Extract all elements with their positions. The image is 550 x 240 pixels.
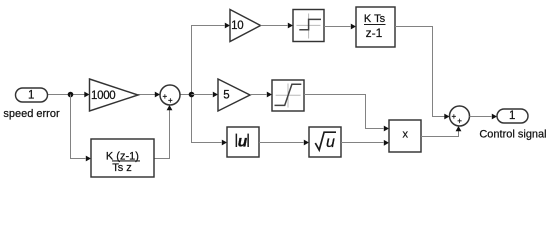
wire sum1 to branch node <box>180 94 192 96</box>
wire sqrt to product in2 <box>341 142 384 144</box>
wire product to sum2 bottom <box>421 127 459 137</box>
wire gain 1000 to sum1 <box>138 94 156 96</box>
arrow into sign block <box>288 23 293 29</box>
svg-text:1: 1 <box>509 110 515 122</box>
wire branch to gain 5 <box>192 94 213 96</box>
svg-text:1000: 1000 <box>91 90 115 102</box>
wire inport to gain 1000 <box>48 94 85 96</box>
svg-text:5: 5 <box>223 89 229 101</box>
arrow into sum1 bottom <box>167 105 173 110</box>
wire gain5 to saturation <box>250 94 267 96</box>
svg-text:z-1: z-1 <box>366 26 383 40</box>
wire sum2 to outport <box>470 116 492 118</box>
arrow into sum2 left <box>444 114 449 120</box>
svg-text:Ts z: Ts z <box>112 162 132 174</box>
svg-text:Control signal: Control signal <box>479 129 546 141</box>
arrow into abs block <box>222 140 227 146</box>
svg-text:K Ts: K Ts <box>364 13 386 25</box>
label speed error <box>3 108 60 120</box>
arrow into integrator <box>351 24 356 30</box>
svg-text:+: + <box>457 117 462 126</box>
arrow into sum2 bottom <box>456 126 462 131</box>
sqrt block <box>309 127 341 157</box>
svg-text:+: + <box>168 96 173 105</box>
gain G3 5 <box>218 79 250 111</box>
label Control signal <box>479 129 546 141</box>
node after inport (branch dot) <box>68 92 74 98</box>
arrow into gain 5 <box>213 92 218 98</box>
wire branch vertical to top row <box>192 26 225 95</box>
outport 1 <box>497 109 528 123</box>
wire gain10 to sign block <box>261 25 288 27</box>
wire branch vertical to bottom row <box>192 95 222 143</box>
arrow into gain 1000 <box>84 92 89 98</box>
arrow into outport <box>492 114 497 120</box>
arrow into saturation <box>267 92 272 98</box>
wire branch down to derivative block <box>71 95 86 159</box>
sum2 <box>450 106 470 126</box>
wire abs to sqrt <box>259 142 304 144</box>
wire saturation to product in1 <box>304 95 384 129</box>
sum1 <box>160 85 180 105</box>
integrator block K Ts/(z-1) <box>356 7 395 47</box>
arrow into derivative block <box>86 156 91 162</box>
arrow into product in2 <box>384 140 389 146</box>
svg-text:1: 1 <box>28 90 34 102</box>
svg-text:speed error: speed error <box>3 108 60 120</box>
derivative block K(z-1)/Tsz <box>91 139 154 177</box>
svg-text:+: + <box>162 92 167 101</box>
inport 1 <box>16 88 48 102</box>
arrow into sqrt <box>304 140 309 146</box>
saturation block <box>272 80 304 111</box>
sign block <box>293 10 324 42</box>
svg-text:u: u <box>326 134 335 151</box>
product block x <box>389 120 421 152</box>
arrow into sum1 left <box>155 92 160 98</box>
arrow into gain 10 <box>225 23 230 29</box>
abs block |u| <box>227 127 259 157</box>
arrow into product in1 <box>384 126 389 132</box>
gain G2 10 <box>230 10 261 42</box>
svg-text:u: u <box>238 133 248 150</box>
node branch dot after sum1 <box>189 92 195 98</box>
gain G1 1000 <box>90 79 139 111</box>
wire integrator down to sum2 <box>395 27 445 117</box>
wire derivative output up to sum1 bottom <box>154 106 170 159</box>
wire sign block to integrator <box>324 26 351 28</box>
svg-text:10: 10 <box>231 20 243 32</box>
svg-text:+: + <box>451 112 456 121</box>
svg-text:x: x <box>402 129 408 141</box>
